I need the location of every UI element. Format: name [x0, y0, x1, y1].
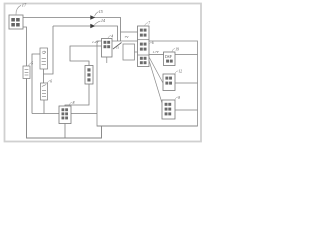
svg-text:19: 19	[175, 47, 179, 51]
svg-text:12: 12	[179, 70, 183, 74]
module column M (three stacked modules)	[138, 22, 154, 67]
wire W2 drop to element Q1	[44, 26, 54, 74]
svg-text:11: 11	[116, 46, 119, 50]
svg-text:15: 15	[99, 10, 103, 14]
mid bus wire into box B2	[32, 113, 59, 115]
svg-text:4: 4	[111, 34, 113, 38]
switch lever K1	[113, 43, 122, 50]
leader 17	[16, 5, 21, 14]
wire B1 bottom stub	[106, 57, 108, 63]
box R2 display module	[163, 70, 182, 91]
box W (blank module)	[123, 44, 135, 60]
arrow on wire W1	[90, 15, 95, 20]
wire 7V branch to module column	[121, 31, 138, 33]
diagonal feed to R3	[149, 60, 162, 103]
border frame	[5, 4, 202, 142]
svg-text:6: 6	[152, 41, 154, 45]
box R3 acquisition module	[162, 96, 180, 119]
wire Q2 bottom to mid bus	[43, 100, 45, 114]
wire DSP right	[175, 54, 198, 56]
box H sensor	[85, 66, 93, 85]
wire 1.7V to DSP	[149, 53, 164, 55]
capacitor C2 element on left bus	[23, 61, 33, 78]
wire W2 second feed	[53, 26, 118, 41]
svg-text:DSP: DSP	[165, 55, 172, 59]
module enclosure (big rectangle)	[97, 41, 198, 126]
svg-text:7: 7	[148, 22, 150, 26]
wire B2 bottom to bottom bus	[64, 124, 66, 139]
svg-text:1.7V: 1.7V	[153, 50, 160, 54]
element Q2	[41, 79, 53, 100]
wire B2 right to enclosure	[71, 113, 97, 115]
wire 1.2V feed to box B1 and H top	[70, 46, 102, 66]
svg-text:1.2V: 1.2V	[92, 40, 99, 44]
wire Q1 bottom to Q2	[43, 69, 45, 83]
box U1 power source 配电电源	[9, 15, 23, 29]
svg-text:14: 14	[101, 19, 105, 23]
wire W1 top feed	[23, 18, 121, 42]
DSP chip U2	[164, 47, 180, 65]
svg-text:8: 8	[178, 96, 180, 100]
arrow on wire W2	[90, 24, 95, 29]
svg-text:6: 6	[50, 79, 52, 83]
box B2 transformer	[59, 101, 75, 124]
wire from U1 down left bus to enclosure bottom	[23, 27, 27, 66]
wire H bottom to B2 top	[65, 84, 89, 106]
box B1 battery module	[102, 34, 114, 57]
element Q1 (tall component)	[40, 48, 48, 69]
wire from Q1 left side down	[32, 54, 40, 114]
svg-text:8: 8	[73, 101, 75, 105]
diagonal feed to R2	[149, 57, 163, 83]
